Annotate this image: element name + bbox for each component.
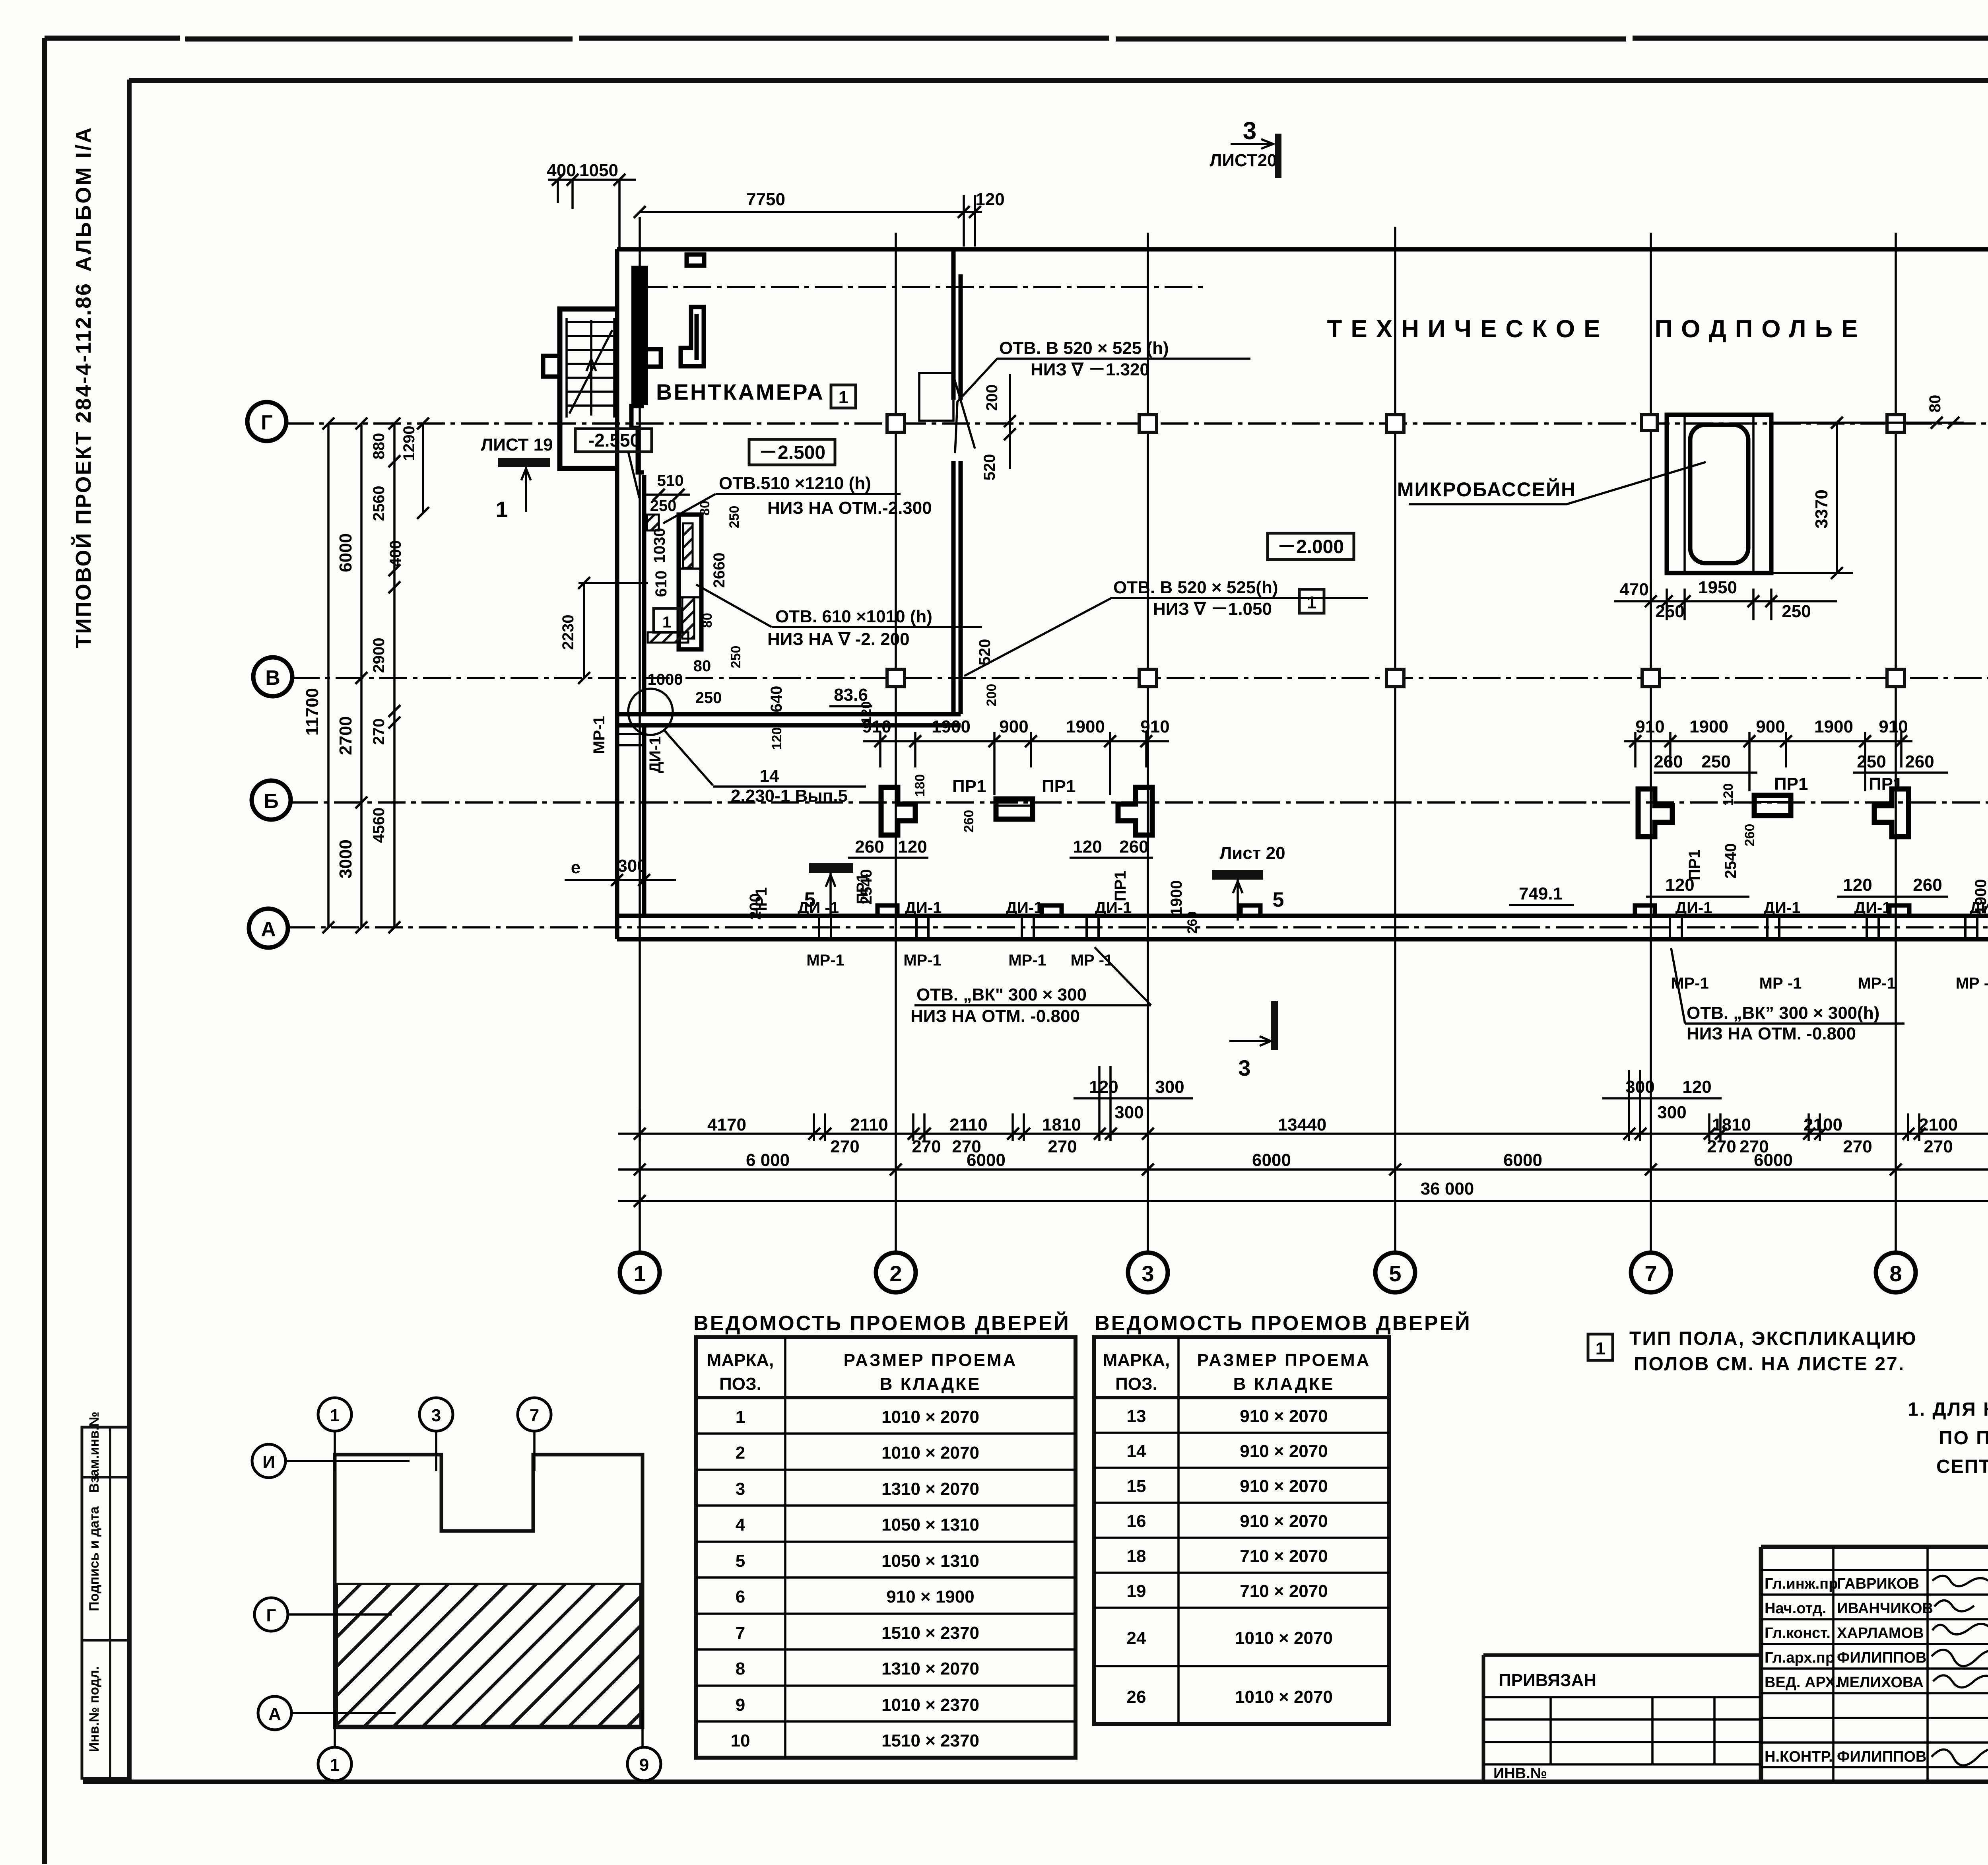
signature table columns bbox=[1833, 1547, 1988, 1782]
svg-text:16: 16 bbox=[1127, 1511, 1146, 1531]
left dim chain total bbox=[327, 424, 330, 927]
svg-text:НИЗ НА ОТМ. -0.800: НИЗ НА ОТМ. -0.800 bbox=[1687, 1024, 1856, 1043]
svg-text:270: 270 bbox=[370, 719, 388, 745]
column circle 1 bbox=[620, 1253, 660, 1292]
elevation box -2.000 bbox=[1268, 533, 1354, 559]
svg-text:Инв.№ подл.: Инв.№ подл. bbox=[87, 1666, 102, 1752]
left dim chain partitions bbox=[393, 424, 396, 927]
svg-text:300: 300 bbox=[1625, 1077, 1654, 1097]
svg-text:7: 7 bbox=[1644, 1261, 1657, 1286]
svg-text:520: 520 bbox=[976, 639, 994, 666]
svg-text:260: 260 bbox=[1119, 837, 1148, 857]
svg-text:－2.000: －2.000 bbox=[1277, 536, 1344, 558]
column axis 8 bbox=[1895, 233, 1897, 1253]
svg-text:80: 80 bbox=[693, 657, 711, 675]
svg-text:610: 610 bbox=[652, 571, 670, 597]
svg-text:ПР1: ПР1 bbox=[1112, 870, 1129, 901]
top wall stub box bbox=[687, 254, 704, 266]
svg-text:И: И bbox=[262, 1452, 275, 1472]
svg-text:250: 250 bbox=[1701, 752, 1730, 771]
svg-text:ТИПОВОЙ ПРОЕКТ 284-4-112.86: ТИПОВОЙ ПРОЕКТ 284-4-112.86 bbox=[71, 282, 95, 648]
svg-text:1000: 1000 bbox=[648, 671, 683, 688]
e 300 dim left bbox=[565, 879, 676, 881]
svg-text:ОТВ. „ВК" 300 × 300: ОТВ. „ВК" 300 × 300 bbox=[916, 985, 1087, 1004]
svg-text:МЕЛИХОВА: МЕЛИХОВА bbox=[1837, 1674, 1924, 1691]
svg-text:1010 × 2070: 1010 × 2070 bbox=[881, 1407, 979, 1427]
svg-text:МР -1: МР -1 bbox=[1759, 975, 1802, 992]
detail leader bbox=[665, 731, 713, 785]
svg-text:270: 270 bbox=[1707, 1137, 1736, 1156]
svg-text:6000: 6000 bbox=[336, 533, 355, 572]
svg-text:ФИЛИППОВ: ФИЛИППОВ bbox=[1837, 1649, 1926, 1666]
svg-text:910: 910 bbox=[1879, 717, 1908, 736]
svg-text:2540: 2540 bbox=[1722, 843, 1739, 879]
svg-text:300: 300 bbox=[1657, 1103, 1686, 1122]
svg-text:1: 1 bbox=[662, 614, 671, 631]
svg-text:2540: 2540 bbox=[858, 869, 875, 905]
svg-text:120: 120 bbox=[1843, 875, 1872, 895]
svg-text:НИЗ ∇ －1.320: НИЗ ∇ －1.320 bbox=[1031, 360, 1149, 379]
svg-text:2100: 2100 bbox=[1804, 1115, 1842, 1135]
svg-text:1: 1 bbox=[839, 388, 848, 407]
bottom exterior wall bbox=[617, 916, 1988, 939]
svg-text:6000: 6000 bbox=[967, 1150, 1006, 1170]
axis circle A bbox=[249, 909, 288, 948]
pool outer rect bbox=[1667, 415, 1771, 573]
svg-text:24: 24 bbox=[1127, 1628, 1146, 1648]
svg-text:ОТВ. 610 ×1010 (h): ОТВ. 610 ×1010 (h) bbox=[775, 607, 932, 626]
svg-text:11700: 11700 bbox=[303, 688, 322, 736]
svg-text:1010 × 2070: 1010 × 2070 bbox=[881, 1443, 979, 1463]
svg-text:910 × 2070: 910 × 2070 bbox=[1240, 1476, 1328, 1496]
svg-text:2110: 2110 bbox=[850, 1115, 888, 1135]
ventkamera door niche bbox=[919, 373, 975, 449]
svg-text:270: 270 bbox=[1048, 1137, 1077, 1156]
svg-text:1: 1 bbox=[1307, 593, 1316, 612]
svg-text:250: 250 bbox=[727, 506, 742, 528]
key plan outline bbox=[335, 1455, 643, 1727]
axis circle B bbox=[252, 781, 291, 820]
svg-text:НИЗ НА ОТМ. -0.800: НИЗ НА ОТМ. -0.800 bbox=[911, 1006, 1080, 1026]
svg-text:510: 510 bbox=[657, 472, 684, 490]
svg-text:13440: 13440 bbox=[1278, 1115, 1326, 1135]
stair bay side bump bbox=[543, 356, 560, 377]
svg-text:ПОЗ.: ПОЗ. bbox=[719, 1374, 761, 1394]
privyazan block bbox=[1483, 1655, 1761, 1782]
svg-text:640: 640 bbox=[768, 686, 785, 713]
svg-text:1050 × 1310: 1050 × 1310 bbox=[881, 1551, 979, 1571]
svg-text:Н.КОНТР.: Н.КОНТР. bbox=[1765, 1748, 1833, 1765]
key plan axis G bbox=[254, 1598, 288, 1631]
svg-text:Подпись и дата: Подпись и дата bbox=[87, 1506, 102, 1611]
svg-text:Гл.конст.: Гл.конст. bbox=[1765, 1625, 1831, 1642]
floor type box 1 near -2.000 bbox=[1299, 589, 1324, 613]
key plan axis I bbox=[252, 1444, 285, 1478]
pier dims left group line bbox=[863, 740, 1169, 742]
svg-text:2.230-1 Вып.5: 2.230-1 Вып.5 bbox=[731, 786, 848, 806]
svg-text:ВЕДОМОСТЬ ПРОЕМОВ ДВЕРЕЙ: ВЕДОМОСТЬ ПРОЕМОВ ДВЕРЕЙ bbox=[693, 1311, 1070, 1335]
svg-text:270: 270 bbox=[912, 1137, 941, 1156]
column axis 3 bbox=[1147, 233, 1149, 1253]
svg-text:400: 400 bbox=[387, 540, 404, 567]
svg-text:1510 × 2370: 1510 × 2370 bbox=[881, 1731, 979, 1750]
svg-text:250: 250 bbox=[1782, 602, 1811, 621]
key plan axis 1 bottom bbox=[318, 1747, 351, 1781]
svg-text:1050: 1050 bbox=[579, 161, 618, 180]
svg-text:6 000: 6 000 bbox=[746, 1150, 790, 1170]
axis line G bbox=[286, 422, 1988, 425]
svg-text:ИНВ.№: ИНВ.№ bbox=[1493, 1765, 1547, 1782]
svg-text:4560: 4560 bbox=[370, 808, 388, 843]
svg-text:250: 250 bbox=[695, 689, 722, 707]
svg-text:1: 1 bbox=[1596, 1339, 1605, 1358]
column circle 7 bbox=[1631, 1253, 1671, 1292]
pier rect right group bbox=[1754, 795, 1791, 816]
svg-text:520: 520 bbox=[981, 454, 998, 481]
riser dims at column 7 bbox=[1602, 1097, 1722, 1100]
svg-text:6000: 6000 bbox=[1503, 1150, 1542, 1170]
svg-text:910: 910 bbox=[1635, 717, 1664, 736]
svg-text:270: 270 bbox=[830, 1137, 859, 1156]
pool inner basin bbox=[1690, 425, 1748, 563]
svg-text:ДИ-1: ДИ-1 bbox=[905, 899, 942, 917]
svg-text:910 × 2070: 910 × 2070 bbox=[1240, 1511, 1328, 1531]
top left dims 400 1050 bbox=[548, 180, 636, 250]
svg-text:МР-1: МР-1 bbox=[1671, 975, 1709, 992]
left wall jog at stair exit bbox=[631, 406, 644, 472]
section marker 5 left bbox=[809, 863, 853, 873]
svg-text:МАРКА,: МАРКА, bbox=[707, 1350, 774, 1370]
pool vertical dim 3370 bbox=[1771, 423, 1853, 573]
small hatched box bbox=[647, 515, 659, 530]
svg-text:1: 1 bbox=[633, 1261, 646, 1286]
svg-text:ПР1: ПР1 bbox=[952, 777, 986, 796]
bottom wall vent ticks bbox=[819, 916, 1977, 939]
ventkamera south wall bbox=[617, 714, 961, 725]
svg-text:80: 80 bbox=[1926, 395, 1944, 413]
svg-text:Гл.инж.пр: Гл.инж.пр bbox=[1765, 1576, 1838, 1592]
svg-text:1: 1 bbox=[736, 1407, 745, 1427]
elevation box -2.550 bbox=[575, 429, 652, 452]
svg-text:5: 5 bbox=[1389, 1261, 1401, 1286]
svg-text:9: 9 bbox=[736, 1695, 745, 1715]
svg-text:1900: 1900 bbox=[1066, 717, 1105, 736]
column axis 1 bbox=[639, 217, 641, 1253]
column axis 7 bbox=[1650, 233, 1652, 1253]
svg-text:7: 7 bbox=[530, 1406, 539, 1425]
svg-text:4170: 4170 bbox=[707, 1115, 746, 1135]
svg-text:400: 400 bbox=[547, 161, 576, 180]
detail circle on left wall bbox=[628, 689, 673, 735]
svg-text:ТИП ПОЛА, ЭКСПЛИКАЦИЮ: ТИП ПОЛА, ЭКСПЛИКАЦИЮ bbox=[1629, 1328, 1917, 1349]
svg-text:ПР1: ПР1 bbox=[1686, 849, 1703, 880]
svg-text:2700: 2700 bbox=[336, 716, 355, 755]
svg-text:120: 120 bbox=[769, 727, 784, 750]
svg-text:120: 120 bbox=[975, 190, 1004, 209]
top dim 7750 bbox=[640, 195, 982, 247]
key plan axis A bbox=[258, 1696, 291, 1730]
riser dims at column 3 bbox=[1074, 1097, 1193, 1100]
svg-text:А: А bbox=[261, 918, 276, 941]
svg-text:ОТВ. В 520 × 525 (h): ОТВ. В 520 × 525 (h) bbox=[999, 338, 1169, 358]
svg-text:ДИ-1: ДИ-1 bbox=[1764, 899, 1801, 917]
door table 1 grid bbox=[696, 1337, 1076, 1758]
pier L right group bbox=[1638, 789, 1672, 837]
svg-text:1290: 1290 bbox=[400, 426, 418, 461]
svg-text:1310 × 2070: 1310 × 2070 bbox=[881, 1479, 979, 1499]
DI-1 bumps on bottom wall bbox=[878, 905, 1988, 916]
svg-text:МР-1: МР-1 bbox=[903, 952, 942, 969]
bottom dim chain 1 bbox=[618, 1133, 1988, 1135]
svg-text:ОТВ. „ВК” 300 × 300(h): ОТВ. „ВК” 300 × 300(h) bbox=[1687, 1003, 1879, 1023]
svg-text:1310 × 2070: 1310 × 2070 bbox=[881, 1659, 979, 1678]
outer border top (dashed hand-drawn) bbox=[45, 38, 1988, 39]
svg-text:6000: 6000 bbox=[1252, 1150, 1291, 1170]
title block outer boundary bbox=[1761, 1547, 1988, 1782]
svg-text:2230: 2230 bbox=[559, 615, 577, 650]
svg-text:ДИ-1: ДИ-1 bbox=[1854, 899, 1891, 917]
svg-text:14: 14 bbox=[1127, 1441, 1146, 1461]
stair arrow top-left bbox=[569, 330, 612, 414]
svg-text:1. ДЛЯ КРЕПЛЕНИЯ ДВЕРЦЫ ПРО: 1. ДЛЯ КРЕПЛЕНИЯ ДВЕРЦЫ ПРОДУХОВ ДИ-1 bbox=[1908, 1399, 1988, 1420]
svg-text:2: 2 bbox=[889, 1261, 902, 1286]
left wall vent ticks bbox=[617, 734, 644, 745]
floor type box 1 marker in duct bbox=[654, 608, 680, 632]
svg-text:120: 120 bbox=[1682, 1077, 1711, 1097]
floor type box at ventkamera bbox=[831, 385, 856, 408]
column axis 2 bbox=[895, 233, 897, 1253]
column circle 2 bbox=[876, 1253, 916, 1292]
svg-text:Взам.инв.№: Взам.инв.№ bbox=[87, 1412, 102, 1493]
svg-text:e: e bbox=[571, 858, 580, 877]
svg-text:300: 300 bbox=[1155, 1077, 1184, 1097]
svg-text:МР -1: МР -1 bbox=[1956, 975, 1988, 992]
svg-text:ДИ -1: ДИ -1 bbox=[798, 899, 839, 917]
svg-text:2: 2 bbox=[736, 1443, 745, 1463]
left dim 1290 bbox=[422, 424, 424, 513]
axis line B bbox=[290, 801, 1988, 804]
svg-text:ВЕД. АРХ.: ВЕД. АРХ. bbox=[1765, 1674, 1839, 1691]
svg-text:ПОЛОВ СМ. НА ЛИСТЕ 27.: ПОЛОВ СМ. НА ЛИСТЕ 27. bbox=[1634, 1354, 1905, 1375]
top exterior wall bbox=[617, 247, 1988, 252]
note floor type box bbox=[1588, 1334, 1613, 1360]
svg-text:3: 3 bbox=[1238, 1055, 1250, 1080]
svg-text:1900: 1900 bbox=[1689, 717, 1728, 736]
svg-text:В КЛАДКЕ: В КЛАДКЕ bbox=[880, 1374, 981, 1394]
pool bottom dims bbox=[1614, 581, 1837, 620]
ventkamera right partition wall bbox=[953, 249, 961, 714]
svg-text:7: 7 bbox=[736, 1623, 745, 1643]
svg-text:А: А bbox=[268, 1704, 281, 1724]
bottom dim chain 3 bbox=[618, 1200, 1988, 1202]
svg-text:МР -1: МР -1 bbox=[1071, 952, 1113, 969]
svg-text:ВЕДОМОСТЬ ПРОЕМОВ ДВЕРЕЙ: ВЕДОМОСТЬ ПРОЕМОВ ДВЕРЕЙ bbox=[1095, 1311, 1472, 1335]
section marker 3 bottom bbox=[1271, 1001, 1278, 1050]
pier dims right group sub bbox=[1654, 771, 1948, 774]
svg-text:300: 300 bbox=[617, 856, 646, 876]
svg-text:НИЗ ∇ －1.050: НИЗ ∇ －1.050 bbox=[1153, 599, 1272, 619]
svg-text:4: 4 bbox=[736, 1515, 745, 1535]
svg-text:АЛЬБОМ I/А: АЛЬБОМ I/А bbox=[72, 126, 95, 272]
svg-text:5: 5 bbox=[1273, 888, 1284, 911]
bottom hatch strip bbox=[648, 632, 688, 643]
svg-text:5: 5 bbox=[736, 1551, 745, 1571]
svg-text:910 × 2070: 910 × 2070 bbox=[1240, 1407, 1328, 1426]
top wall inner dash line bbox=[640, 286, 1206, 288]
svg-text:250: 250 bbox=[650, 497, 677, 515]
svg-text:260: 260 bbox=[1742, 824, 1757, 847]
pier L mirrored right group bbox=[1874, 789, 1908, 837]
svg-text:Г: Г bbox=[266, 1606, 276, 1625]
svg-text:Б: Б bbox=[264, 790, 278, 813]
left dim 2230 bbox=[579, 583, 648, 678]
svg-text:ПОЗ.: ПОЗ. bbox=[1115, 1374, 1157, 1394]
svg-text:ПР1: ПР1 bbox=[1774, 774, 1808, 794]
svg-text:3: 3 bbox=[431, 1406, 441, 1425]
stair bay right wall solid bbox=[631, 266, 648, 405]
svg-text:ГАВРИКОВ: ГАВРИКОВ bbox=[1837, 1576, 1919, 1592]
svg-text:6: 6 bbox=[736, 1587, 745, 1607]
svg-text:900: 900 bbox=[999, 717, 1028, 736]
svg-text:270: 270 bbox=[1843, 1137, 1872, 1156]
svg-text:МР-1: МР-1 bbox=[590, 716, 608, 754]
stair treads top-left bbox=[567, 318, 614, 418]
svg-text:270: 270 bbox=[1924, 1137, 1953, 1156]
svg-text:ВЕНТКАМЕРА: ВЕНТКАМЕРА bbox=[656, 379, 825, 404]
left exterior wall double line bbox=[617, 249, 644, 939]
axis circle V bbox=[253, 657, 292, 696]
axis line V bbox=[292, 677, 1988, 679]
svg-text:2110: 2110 bbox=[949, 1115, 987, 1135]
key plan axis 3 top bbox=[419, 1398, 453, 1431]
pier dims left group sub bbox=[848, 857, 1153, 859]
svg-text:НИЗ НА ОТМ.-2.300: НИЗ НА ОТМ.-2.300 bbox=[767, 498, 932, 518]
door table 2 grid bbox=[1094, 1337, 1389, 1724]
svg-text:ПРИВЯЗАН: ПРИВЯЗАН bbox=[1499, 1671, 1596, 1690]
svg-text:ХАРЛАМОВ: ХАРЛАМОВ bbox=[1837, 1625, 1924, 1642]
ventkamera J-duct bbox=[681, 307, 704, 366]
svg-text:260: 260 bbox=[1654, 752, 1683, 771]
key plan axis 7 top bbox=[518, 1398, 551, 1431]
svg-text:120: 120 bbox=[898, 837, 927, 857]
column squares on axis G bbox=[887, 415, 905, 432]
outer border left bbox=[42, 38, 47, 1864]
svg-text:－2.500: －2.500 bbox=[759, 442, 825, 463]
svg-text:МАРКА,: МАРКА, bbox=[1103, 1350, 1170, 1370]
svg-text:710 × 2070: 710 × 2070 bbox=[1240, 1546, 1328, 1566]
svg-text:8: 8 bbox=[736, 1659, 745, 1678]
pool side strips bbox=[1685, 415, 1753, 573]
svg-text:3: 3 bbox=[1142, 1261, 1154, 1286]
svg-text:120: 120 bbox=[1721, 783, 1736, 806]
svg-text:7750: 7750 bbox=[746, 190, 785, 209]
svg-text:749.1: 749.1 bbox=[1519, 884, 1563, 903]
svg-text:ЛИСТ 19: ЛИСТ 19 bbox=[481, 435, 553, 455]
pier L mirrored left group bbox=[1118, 787, 1152, 835]
axis line A bbox=[287, 926, 1988, 929]
pier dims right group line bbox=[1624, 740, 1912, 742]
svg-text:3: 3 bbox=[1243, 117, 1256, 145]
svg-text:РАЗМЕР ПРОЕМА: РАЗМЕР ПРОЕМА bbox=[844, 1350, 1017, 1370]
column circle 8 bbox=[1876, 1253, 1916, 1292]
svg-text:120: 120 bbox=[1089, 1077, 1118, 1097]
svg-text:260: 260 bbox=[1185, 911, 1200, 934]
bottom dim chain 2 bbox=[618, 1168, 1988, 1171]
svg-text:НИЗ НА ∇ -2. 200: НИЗ НА ∇ -2. 200 bbox=[767, 629, 910, 649]
stair bay top-left outline bbox=[560, 309, 617, 468]
svg-text:-2.550: -2.550 bbox=[588, 430, 640, 451]
svg-text:260: 260 bbox=[1905, 752, 1934, 771]
svg-text:1810: 1810 bbox=[1042, 1115, 1081, 1135]
svg-text:1010 × 2070: 1010 × 2070 bbox=[1235, 1628, 1333, 1648]
svg-text:80: 80 bbox=[700, 613, 715, 628]
svg-text:1: 1 bbox=[330, 1406, 340, 1425]
pier rect left group bbox=[996, 799, 1033, 819]
svg-text:ОТВ.510 ×1210 (h): ОТВ.510 ×1210 (h) bbox=[719, 474, 871, 493]
column squares on axis V bbox=[887, 669, 905, 687]
svg-text:РАЗМЕР ПРОЕМА: РАЗМЕР ПРОЕМА bbox=[1197, 1350, 1371, 1370]
svg-text:Нач.отд.: Нач.отд. bbox=[1765, 1600, 1826, 1617]
svg-text:ПР1: ПР1 bbox=[1042, 777, 1076, 796]
key plan axis 1 top bbox=[318, 1398, 351, 1431]
svg-text:Г: Г bbox=[261, 411, 272, 434]
svg-text:200: 200 bbox=[747, 894, 764, 920]
svg-text:910: 910 bbox=[1140, 717, 1169, 736]
svg-text:МР-1: МР-1 bbox=[806, 952, 845, 969]
column axis 5 bbox=[1394, 227, 1396, 1253]
svg-text:ТЕХНИЧЕСКОЕ: ТЕХНИЧЕСКОЕ bbox=[1327, 315, 1609, 343]
signature table rows bbox=[1761, 1570, 1988, 1767]
pier L left group bbox=[881, 787, 915, 835]
left dim chain axes bbox=[360, 424, 363, 927]
svg-text:14: 14 bbox=[760, 766, 779, 786]
svg-text:ОТВ. В 520 × 525(h): ОТВ. В 520 × 525(h) bbox=[1113, 578, 1278, 597]
svg-text:ДИ-1: ДИ-1 bbox=[1006, 899, 1043, 917]
left margin boxes bbox=[82, 1427, 129, 1778]
svg-text:260: 260 bbox=[855, 837, 884, 857]
svg-text:1950: 1950 bbox=[1698, 578, 1737, 597]
svg-text:ПО ПЕРИМЕТРУ ПРОЕМА ЗАЛОЖИТЬ: ПО ПЕРИМЕТРУ ПРОЕМА ЗАЛОЖИТЬ 4 АНТИ- bbox=[1939, 1428, 1988, 1449]
svg-text:1010 × 2070: 1010 × 2070 bbox=[1235, 1687, 1333, 1707]
svg-text:260: 260 bbox=[1913, 875, 1942, 895]
column circle 5 bbox=[1375, 1253, 1415, 1292]
key plan hatched zone bbox=[337, 1584, 641, 1726]
svg-text:ЛИСТ20: ЛИСТ20 bbox=[1210, 151, 1277, 170]
svg-text:910 × 2070: 910 × 2070 bbox=[1240, 1441, 1328, 1461]
svg-text:180: 180 bbox=[912, 774, 928, 797]
svg-text:250: 250 bbox=[728, 646, 744, 668]
svg-text:36 000: 36 000 bbox=[1421, 1179, 1474, 1199]
svg-text:1900: 1900 bbox=[1972, 879, 1988, 915]
svg-text:2660: 2660 bbox=[711, 553, 728, 588]
axis circle G bbox=[247, 402, 286, 441]
svg-text:ДИ-1: ДИ-1 bbox=[1675, 899, 1712, 917]
svg-text:СЕПТИРОВАННЫЕ ДЕРЕВЯННЫЕ ПРОБ: СЕПТИРОВАННЫЕ ДЕРЕВЯННЫЕ ПРОБКИ 65×65×65… bbox=[1936, 1456, 1988, 1477]
svg-text:1: 1 bbox=[495, 497, 508, 522]
pool top dim 80 bbox=[1771, 422, 1964, 424]
svg-text:250: 250 bbox=[1857, 752, 1886, 771]
svg-text:Лист 20: Лист 20 bbox=[1219, 843, 1285, 863]
svg-text:6000: 6000 bbox=[1754, 1150, 1793, 1170]
svg-text:18: 18 bbox=[1127, 1546, 1146, 1566]
svg-text:1050 × 1310: 1050 × 1310 bbox=[881, 1515, 979, 1535]
svg-text:МР-1: МР-1 bbox=[1008, 952, 1046, 969]
key plan axis 9 bottom bbox=[627, 1747, 661, 1781]
svg-text:470: 470 bbox=[1619, 580, 1648, 599]
svg-text:МР-1: МР-1 bbox=[1858, 975, 1896, 992]
svg-text:120: 120 bbox=[859, 701, 874, 724]
svg-text:3370: 3370 bbox=[1812, 490, 1831, 528]
